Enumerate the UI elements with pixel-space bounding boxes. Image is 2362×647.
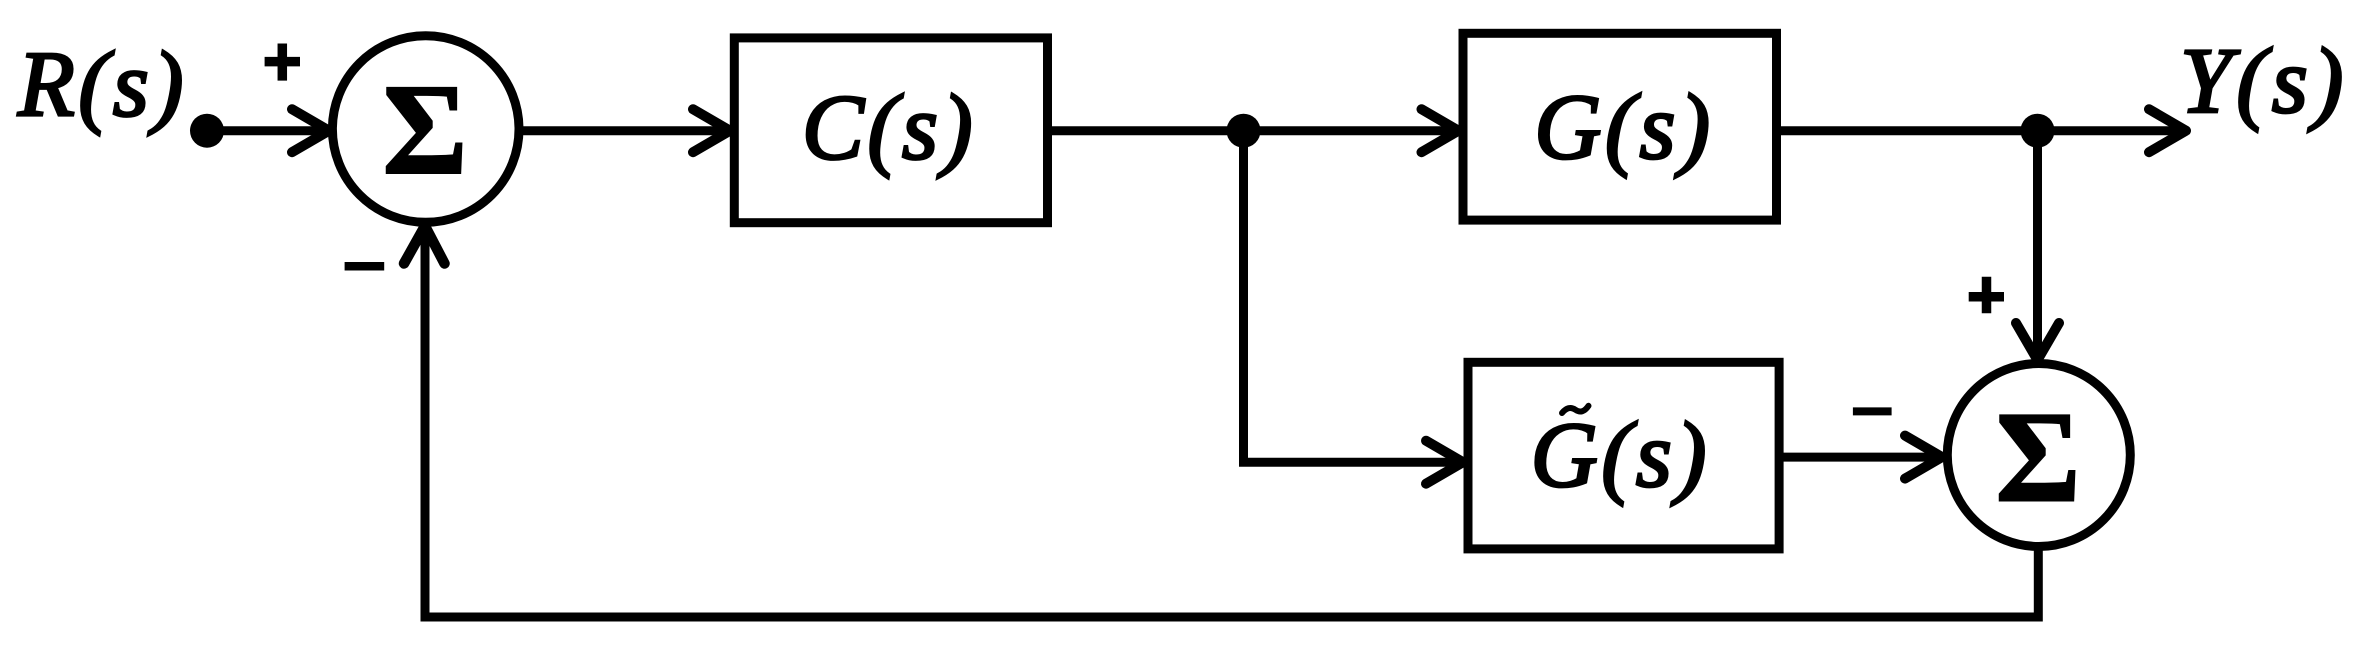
svg-text:Y(s): Y(s)	[2180, 30, 2348, 133]
node A junction dot	[1227, 114, 1261, 148]
wire node B down to summing junction U2	[2033, 131, 2042, 357]
block G(s) plant	[1463, 33, 1777, 220]
wire Gt to summing junction U2	[1779, 453, 1940, 462]
wire node A down to block Gt	[1244, 131, 1462, 463]
summing junction U2	[1947, 364, 2130, 547]
arrowhead into block C	[693, 109, 730, 152]
wire U1 to block C	[519, 126, 728, 135]
block Gt(s) model	[1468, 362, 1779, 549]
arrowhead into summing junction U1	[292, 109, 329, 152]
minus sign at U1 feedback input	[345, 262, 385, 271]
arrowhead into summing junction U2	[1905, 436, 1942, 479]
arrowhead into block G	[1422, 109, 1459, 152]
feedback wire U2 bottom to U1 bottom	[425, 228, 2038, 617]
svg-text:C(s): C(s)	[802, 76, 976, 179]
svg-text:G(s): G(s)	[1534, 76, 1713, 179]
arrowhead up into summing junction U1	[404, 226, 445, 264]
node B output junction dot	[2021, 114, 2055, 148]
wire R to summing junction U1	[207, 126, 327, 135]
plus sign at U2 top input	[1969, 277, 2004, 314]
tilde accent over G	[1562, 406, 1589, 413]
arrowhead into block Gt	[1426, 441, 1463, 484]
wire G to output node B	[1781, 126, 2184, 135]
svg-text:Σ: Σ	[1996, 386, 2081, 530]
wire C to node A	[1052, 126, 1456, 135]
svg-text:R(s): R(s)	[17, 34, 187, 137]
block C(s) controller	[734, 38, 1047, 223]
summing junction U1	[332, 36, 519, 223]
svg-text:Σ: Σ	[383, 58, 468, 202]
plus sign at U1 input	[265, 44, 300, 81]
arrowhead to Y(s) output	[2149, 109, 2186, 152]
node R input dot	[190, 114, 224, 148]
arrowhead down into summing junction U2	[2016, 323, 2059, 360]
svg-text:G(s): G(s)	[1531, 404, 1710, 507]
minus sign at U2 input	[1853, 407, 1892, 415]
